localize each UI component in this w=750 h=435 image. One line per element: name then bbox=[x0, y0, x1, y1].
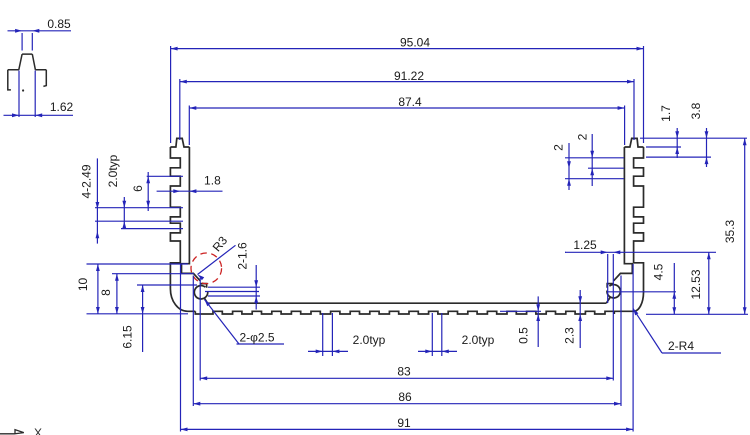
profile inner floor line bbox=[208, 302, 607, 304]
x-axis icon bbox=[0, 426, 42, 435]
extension line boss center right bbox=[607, 291, 676, 293]
detail dimension 0.85 bbox=[8, 17, 72, 51]
dimension 1.7 bbox=[659, 105, 679, 158]
leader 2-R4 bbox=[633, 309, 721, 354]
dimension 4-2.49 bbox=[80, 158, 100, 243]
dimension 8 bbox=[99, 274, 119, 314]
profile left wall outer face with grooves bbox=[170, 147, 195, 311]
extension line slot top left bbox=[87, 263, 189, 265]
svg-text:10: 10 bbox=[76, 278, 90, 292]
svg-text:2.0typ: 2.0typ bbox=[353, 333, 386, 347]
svg-text:4-2.49: 4-2.49 bbox=[80, 164, 94, 198]
extension line tooth top right bbox=[640, 137, 747, 139]
svg-text:2.0typ: 2.0typ bbox=[106, 154, 120, 187]
profile left inner wall with slot and screw boss bbox=[182, 147, 208, 303]
dimension 2.0typ bottom second bbox=[418, 313, 495, 356]
detail dimension 1.62 bbox=[4, 71, 74, 118]
extension lines 2-1.6 bbox=[208, 287, 260, 296]
extension line groove top right bbox=[646, 156, 711, 158]
svg-text:91: 91 bbox=[397, 416, 411, 430]
svg-text:2.0typ: 2.0typ bbox=[462, 333, 495, 347]
dimension 2.0typ left bbox=[106, 154, 126, 228]
dimension 6.15 bbox=[121, 285, 145, 352]
extension line bottom right bbox=[646, 313, 748, 315]
svg-text:2: 2 bbox=[576, 133, 590, 140]
extension line bottom left bbox=[87, 313, 189, 315]
red dashed circle R3 detail bbox=[191, 253, 222, 284]
svg-text:1.62: 1.62 bbox=[50, 100, 74, 114]
profile right wall tooth bbox=[624, 138, 643, 147]
profile right wall outer face with grooves bbox=[614, 147, 643, 311]
svg-text:87.4: 87.4 bbox=[398, 95, 422, 109]
extension line 0.5 bbox=[500, 310, 541, 312]
dimension 12.53 bbox=[689, 252, 711, 314]
svg-text:35.3: 35.3 bbox=[723, 219, 737, 243]
dimension 35.3 bbox=[723, 138, 747, 314]
dimension 6 bbox=[131, 172, 150, 211]
extension line 1.25 left bbox=[607, 254, 609, 303]
dimension 91 bbox=[181, 416, 634, 431]
svg-text:2.3: 2.3 bbox=[563, 327, 577, 344]
dimension 1.8 bbox=[157, 174, 223, 194]
dimension 0.5 bbox=[517, 296, 541, 347]
dimension 2.0typ bottom first bbox=[308, 313, 386, 356]
extension line hole center left bbox=[205, 291, 259, 293]
dimension 1.25 bbox=[565, 238, 620, 254]
svg-text:83: 83 bbox=[397, 365, 411, 379]
dimension 3.8 bbox=[689, 102, 708, 167]
extension lines right wall grooves bbox=[565, 158, 624, 179]
dimension 87.4 bbox=[189, 95, 624, 110]
svg-text:12.53: 12.53 bbox=[689, 269, 703, 299]
extension line slot bottom left bbox=[112, 273, 194, 275]
svg-text:6.15: 6.15 bbox=[121, 325, 135, 349]
svg-text:2: 2 bbox=[552, 144, 566, 151]
svg-text:1.8: 1.8 bbox=[204, 174, 221, 188]
svg-text:86: 86 bbox=[398, 390, 412, 404]
svg-text:X: X bbox=[34, 426, 42, 435]
dimension 86 bbox=[193, 390, 621, 406]
dimension 2-1.6 bbox=[236, 242, 259, 309]
svg-text:91.22: 91.22 bbox=[394, 69, 424, 83]
leader R3 bbox=[198, 233, 236, 280]
detail view tooth profile outline bbox=[8, 54, 47, 92]
extension lines left wall grooves bbox=[95, 176, 183, 228]
extension lines top right bbox=[625, 46, 644, 145]
dimension 2.3 bbox=[563, 290, 583, 348]
svg-text:1.25: 1.25 bbox=[573, 238, 597, 252]
svg-text:3.8: 3.8 bbox=[689, 102, 703, 119]
extension line wall top right bbox=[646, 146, 681, 148]
svg-text:2-1.6: 2-1.6 bbox=[236, 242, 250, 270]
svg-text:0.5: 0.5 bbox=[517, 327, 531, 344]
svg-text:2-φ2.5: 2-φ2.5 bbox=[239, 331, 274, 345]
profile bottom serrated surface bbox=[195, 311, 614, 314]
svg-text:95.04: 95.04 bbox=[400, 35, 430, 49]
svg-text:6: 6 bbox=[131, 185, 145, 192]
svg-text:1.7: 1.7 bbox=[659, 105, 673, 122]
extension line y285 left bbox=[137, 284, 197, 286]
extension line 12.53 top bbox=[565, 251, 716, 253]
extension lines top left bbox=[171, 46, 190, 145]
dimension 95.04 bbox=[171, 35, 644, 50]
svg-text:4.5: 4.5 bbox=[652, 263, 666, 280]
extension lines bottom dims bbox=[181, 254, 634, 432]
dimension 2 upper bbox=[576, 133, 595, 186]
dimension 10 bbox=[76, 264, 100, 314]
dimension 91.22 bbox=[180, 69, 634, 84]
dimension 4.5 bbox=[652, 263, 677, 314]
profile left wall tooth bbox=[170, 138, 189, 147]
dimension 2 lower bbox=[552, 143, 571, 190]
dimension 83 bbox=[200, 365, 613, 381]
svg-text:0.85: 0.85 bbox=[47, 17, 71, 31]
leader 2-Φ2.5 bbox=[205, 300, 285, 345]
svg-text:2-R4: 2-R4 bbox=[668, 339, 694, 353]
profile right inner wall with slot and screw boss bbox=[606, 147, 632, 303]
svg-text:8: 8 bbox=[99, 289, 113, 296]
